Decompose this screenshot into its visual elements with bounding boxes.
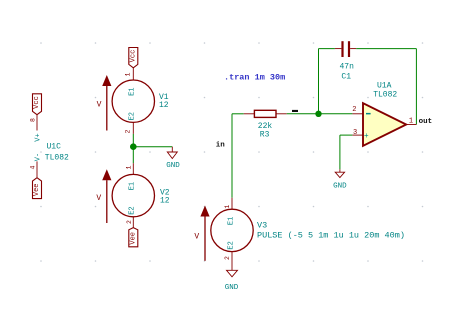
wire R3 to inverting node	[287, 113, 353, 115]
probe arrow V (V3)	[194, 206, 209, 261]
svg-text:TL082: TL082	[373, 91, 397, 100]
wire feedback up	[318, 49, 320, 114]
svg-text:1: 1	[224, 205, 231, 209]
voltage source V2 pin 2	[126, 217, 134, 228]
op-amp U1A TL082	[352, 103, 416, 146]
power symbol Vcc (U1C V+)	[33, 94, 42, 115]
label 47n C1	[340, 62, 355, 81]
svg-text:out: out	[419, 118, 433, 126]
junction V1/V2/GND	[130, 143, 137, 150]
svg-text:1: 1	[125, 72, 132, 76]
label U1A TL082	[373, 82, 397, 100]
svg-text:47n: 47n	[340, 62, 355, 71]
svg-text:V-: V-	[35, 153, 43, 161]
voltage source V1 pin 1	[125, 68, 134, 80]
power symbol Vee (U1C V-)	[33, 178, 42, 199]
junction inverting input node	[315, 111, 321, 117]
svg-text:Vee: Vee	[33, 183, 41, 196]
wire C1 to output branch	[356, 48, 416, 50]
voltage source V2 pin 1	[126, 163, 134, 174]
op-amp U1C power pin 8 V+	[30, 115, 43, 142]
svg-text:3: 3	[353, 129, 357, 137]
svg-text:12: 12	[159, 101, 169, 110]
label U1C TL082	[45, 142, 69, 162]
svg-text:12: 12	[160, 196, 170, 205]
svg-text:U1C: U1C	[47, 142, 62, 151]
resistor R3 22k	[244, 110, 287, 117]
svg-text:.tran 1m 30m: .tran 1m 30m	[224, 73, 285, 83]
svg-text:E2: E2	[129, 112, 137, 120]
svg-text:V: V	[96, 194, 101, 203]
voltage source V2	[112, 174, 154, 216]
svg-text:GND: GND	[166, 162, 180, 170]
svg-text:PULSE (-5 5 1m 1u 1u 20m 40m): PULSE (-5 5 1m 1u 1u 20m 40m)	[257, 231, 405, 241]
ground GND (U1A pin 3)	[333, 169, 347, 190]
svg-text:E2: E2	[129, 206, 137, 214]
voltage source V1	[112, 80, 154, 122]
ground GND (mid)	[166, 147, 180, 170]
svg-text:E1: E1	[227, 217, 235, 225]
svg-text:U1A: U1A	[377, 82, 392, 91]
op-amp U1C power pin 4 V-	[30, 153, 43, 178]
label V1 12	[159, 93, 169, 110]
svg-text:8: 8	[30, 118, 37, 122]
svg-text:E2: E2	[227, 241, 235, 249]
svg-text:V: V	[97, 101, 102, 110]
label V3 PULSE	[257, 221, 405, 241]
text - (inverting node mark)	[292, 110, 298, 112]
svg-text:R3: R3	[260, 131, 270, 140]
svg-text:2: 2	[126, 220, 133, 224]
voltage source V1 pin 2	[125, 122, 134, 133]
svg-text:Vee: Vee	[129, 232, 137, 245]
svg-text:E1: E1	[129, 87, 137, 95]
svg-text:Vcc: Vcc	[33, 96, 41, 109]
label V2 12	[160, 189, 170, 206]
svg-text:2: 2	[352, 106, 356, 114]
svg-text:V+: V+	[35, 133, 43, 141]
svg-text:in: in	[216, 141, 226, 149]
svg-text:2: 2	[125, 129, 132, 133]
svg-text:C1: C1	[341, 73, 351, 82]
wire top to C1	[319, 48, 335, 50]
wire in vertical (V3 to R3 corner)	[231, 114, 233, 198]
voltage source V3	[211, 209, 253, 251]
svg-text:1: 1	[409, 117, 413, 125]
voltage source V3 pin 2	[224, 252, 232, 271]
svg-text:GND: GND	[333, 182, 347, 190]
svg-text:V3: V3	[257, 221, 267, 231]
wire junction to GND	[133, 146, 172, 148]
svg-text:TL082: TL082	[45, 153, 69, 162]
svg-text:GND: GND	[225, 284, 239, 292]
wire output branch down	[415, 49, 417, 125]
svg-text:E1: E1	[129, 182, 137, 190]
voltage source V3 pin 1	[224, 198, 232, 210]
svg-text:Vcc: Vcc	[129, 50, 137, 63]
svg-text:4: 4	[30, 165, 37, 169]
svg-text:V: V	[194, 232, 199, 241]
power symbol Vcc (above V1)	[129, 48, 138, 68]
svg-text:+: +	[364, 132, 369, 141]
probe arrow V (V1)	[97, 75, 112, 131]
wire V1 to V2	[132, 134, 134, 163]
wire corner to R3	[232, 113, 244, 115]
probe arrow V (V2)	[96, 169, 111, 223]
capacitor C1	[335, 41, 356, 57]
ground GND (V3)	[225, 270, 239, 292]
power symbol Vee (below V2)	[129, 228, 138, 247]
label 22k R3	[258, 122, 273, 139]
svg-text:1: 1	[126, 166, 133, 170]
wire U1A pin3 to GND	[340, 135, 353, 169]
svg-text:2: 2	[224, 256, 231, 260]
